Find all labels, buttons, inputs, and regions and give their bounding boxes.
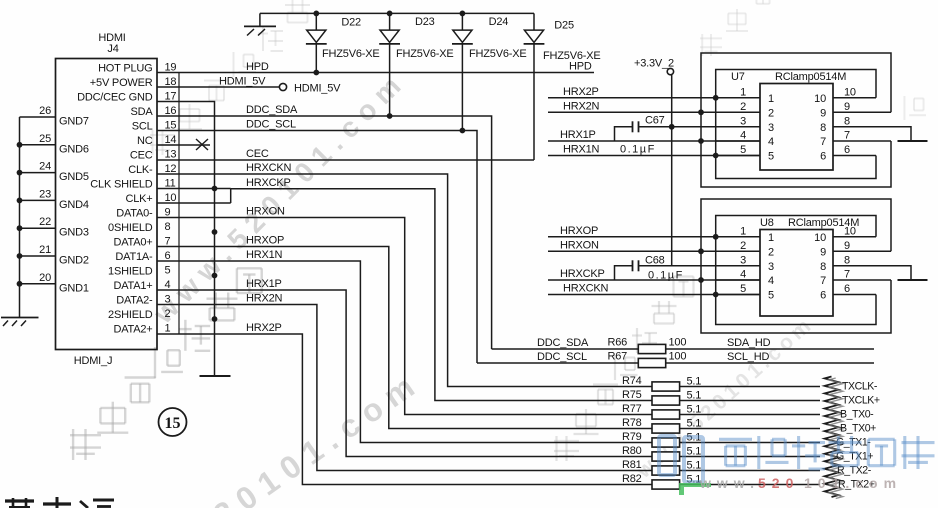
svg-text:CLK SHIELD: CLK SHIELD	[90, 178, 152, 190]
ground (U8 pin 8)	[898, 279, 928, 281]
node B_TX0+ terminal label	[840, 423, 876, 435]
wire HRXOP net to U8 pin1	[548, 225, 760, 237]
node G_TX1- terminal label	[836, 437, 871, 449]
wire HRXCKP net to U8 pin4	[548, 268, 760, 280]
svg-text:19: 19	[165, 61, 177, 73]
svg-text:16: 16	[165, 105, 177, 117]
svg-text:10: 10	[814, 93, 826, 105]
wire C67 to U7 pin3	[639, 126, 761, 128]
wire DDC_SCL net	[157, 119, 477, 364]
svg-text:R75: R75	[622, 389, 642, 401]
ground (DDC/CEC GND)	[200, 375, 231, 377]
svg-text:7: 7	[165, 235, 171, 247]
wire HRXCKP from HDMI pin10 to R75	[157, 177, 652, 401]
node U8 pin4 junction	[698, 277, 704, 283]
wire HRXON from HDMI to R-network	[157, 206, 652, 415]
wire U7 pin 6 stub	[820, 144, 876, 163]
svg-text:D22: D22	[341, 16, 361, 28]
wire HRXON net to U8 pin2	[548, 240, 760, 252]
resistor R79 5.1	[622, 431, 820, 447]
svg-text:R81: R81	[622, 459, 642, 471]
svg-text:2SHIELD: 2SHIELD	[108, 309, 153, 321]
svg-text:+3.3V_2: +3.3V_2	[634, 58, 674, 70]
svg-text:100: 100	[669, 351, 687, 363]
svg-text:HDMI_5V: HDMI_5V	[294, 83, 341, 95]
wire HRX1P from HDMI to R-network	[157, 278, 652, 456]
svg-text:CEC: CEC	[246, 148, 269, 160]
wire U7 pin 5 stub	[716, 144, 774, 163]
pin 20 GND1	[20, 272, 89, 295]
svg-text:GND3: GND3	[59, 227, 89, 239]
svg-text:C68: C68	[645, 255, 665, 267]
svg-text:HRX1N: HRX1N	[246, 249, 283, 261]
wire D25 to CEC	[533, 44, 535, 160]
ground (U7 pin 8)	[898, 140, 928, 142]
svg-text:5.1: 5.1	[687, 418, 702, 430]
node R_TX2- terminal label	[837, 465, 872, 477]
wire C68 to U8 pin3	[639, 265, 761, 267]
pin 15 SCL	[132, 119, 177, 132]
node U8 pin1 junction	[713, 234, 719, 240]
resistor R78 5.1	[622, 417, 820, 433]
svg-text:20: 20	[39, 272, 51, 284]
wire DDC_SDA net	[157, 104, 492, 349]
svg-text:HDMI_J: HDMI_J	[74, 355, 113, 367]
svg-text:24: 24	[39, 161, 51, 173]
pin 25 GND6	[20, 133, 89, 156]
wire U7 pin 1 stub	[716, 86, 774, 105]
svg-text:HRXCKP: HRXCKP	[560, 268, 605, 280]
wire U7 pin 9 stub	[820, 101, 891, 120]
node DDC_SDA-D23 junction	[387, 113, 393, 119]
resistor R66 100	[492, 337, 874, 354]
wire SDA_HD label	[537, 337, 771, 349]
svg-text:3: 3	[768, 261, 774, 273]
svg-text:7: 7	[844, 269, 850, 281]
pin 11 CLK SHIELD	[90, 177, 175, 190]
wire U7 pin 4 stub	[716, 130, 774, 149]
svg-text:HPD: HPD	[246, 61, 269, 73]
svg-text:FHZ5V6-XE: FHZ5V6-XE	[396, 48, 454, 60]
svg-text:3: 3	[740, 115, 746, 127]
svg-text:GND5: GND5	[59, 171, 89, 183]
svg-text:DDC/CEC GND: DDC/CEC GND	[77, 91, 153, 103]
svg-text:3: 3	[165, 293, 171, 305]
wire U8 pin 9 stub	[820, 240, 891, 258]
resistor R80 5.1	[622, 445, 820, 461]
svg-text:4: 4	[740, 130, 746, 142]
svg-text:DATA1+: DATA1+	[113, 280, 152, 292]
svg-text:4: 4	[740, 269, 746, 281]
svg-text:5: 5	[768, 290, 774, 302]
svg-text:www.: www.	[699, 475, 760, 491]
pin 7 DATA0+	[113, 235, 170, 248]
svg-text:+5V POWER: +5V POWER	[90, 77, 153, 89]
wire HDMI_5V net	[157, 75, 280, 87]
svg-text:2: 2	[165, 308, 171, 320]
svg-text:J4: J4	[107, 43, 118, 55]
connector J4 HDMI	[56, 32, 158, 367]
wire U8 pin 1 stub	[716, 225, 774, 244]
pin 26 GND7	[20, 105, 89, 128]
diode D22 FHZ5V6-XE	[306, 13, 380, 60]
svg-text:26: 26	[39, 105, 51, 117]
svg-text:0.1µF: 0.1µF	[648, 270, 684, 282]
node TXCLK- terminal label	[842, 381, 878, 393]
svg-text:SCL_HD: SCL_HD	[727, 351, 769, 363]
node rail junction D24	[460, 11, 466, 17]
node U7 pin2 junction	[698, 109, 704, 115]
svg-text:520: 520	[758, 475, 799, 491]
wire CEC net	[157, 148, 534, 160]
wire D23 to DDC_SDA	[389, 44, 391, 116]
svg-text:DDC_SDA: DDC_SDA	[246, 104, 298, 116]
svg-text:9: 9	[820, 246, 826, 258]
svg-text:7: 7	[844, 130, 850, 142]
wire HRX2P from HDMI to R-network	[157, 322, 652, 484]
svg-text:23: 23	[39, 188, 51, 200]
svg-text:8: 8	[844, 115, 850, 127]
resistor R74 5.1	[622, 375, 820, 391]
svg-text:5.1: 5.1	[687, 404, 702, 416]
diode D25 FHZ5V6-XE	[524, 13, 601, 62]
svg-text:100: 100	[669, 337, 687, 349]
svg-text:DATA0-: DATA0-	[116, 207, 153, 219]
svg-text:4: 4	[165, 279, 171, 291]
node TXCLK+ terminal label	[842, 395, 880, 407]
svg-text:NC: NC	[137, 135, 153, 147]
node sheet number 15	[159, 408, 187, 436]
resistor R75 5.1	[622, 389, 820, 405]
svg-text:HRX2N: HRX2N	[563, 101, 600, 113]
pin 17 DDC/CEC GND	[77, 90, 176, 103]
svg-text:R66: R66	[608, 337, 628, 349]
svg-text:5.1: 5.1	[687, 390, 702, 402]
diode D23 FHZ5V6-XE	[379, 13, 453, 60]
svg-text:7: 7	[820, 275, 826, 287]
svg-text:HRX2P: HRX2P	[563, 86, 599, 98]
wire U7 pin 10 stub	[814, 86, 876, 105]
svg-text:9: 9	[844, 240, 850, 252]
node rail junction D22	[313, 11, 319, 17]
wire diode rail	[260, 13, 534, 26]
svg-text:10: 10	[844, 86, 856, 98]
svg-text:15: 15	[165, 415, 181, 432]
svg-text:SDA: SDA	[130, 106, 153, 118]
svg-text:SDA_HD: SDA_HD	[727, 337, 771, 349]
pin 6 DAT1A-	[115, 250, 170, 263]
svg-text:DDC_SCL: DDC_SCL	[246, 119, 296, 131]
svg-text:2: 2	[740, 240, 746, 252]
GND bus wire left	[17, 117, 23, 318]
svg-text:DATA0+: DATA0+	[113, 236, 152, 248]
svg-text:D23: D23	[415, 16, 435, 28]
svg-text:TXCLK-: TXCLK-	[842, 381, 878, 393]
svg-text:8: 8	[165, 221, 171, 233]
svg-text:HRX1P: HRX1P	[560, 129, 596, 141]
svg-text:21: 21	[39, 244, 51, 256]
wire C67 jog to HRX1P	[615, 127, 633, 141]
svg-text:HOT PLUG: HOT PLUG	[98, 62, 152, 74]
svg-text:R77: R77	[622, 403, 642, 415]
svg-text:HPD: HPD	[569, 61, 592, 73]
capacitor C67 0.1uF	[620, 114, 665, 155]
svg-text:HRXON: HRXON	[246, 206, 285, 218]
svg-text:2: 2	[768, 246, 774, 258]
wire U7 label-box loop	[716, 70, 876, 179]
svg-text:GND6: GND6	[59, 143, 89, 155]
node U7 pin5 junction	[713, 153, 719, 159]
pin 2 2SHIELD	[108, 308, 170, 321]
svg-text:7: 7	[820, 136, 826, 148]
wire HRXCKN net to U8 pin5	[548, 283, 760, 295]
svg-text:5.1: 5.1	[687, 460, 702, 472]
node TX off-page zigzag terminal strip	[825, 377, 843, 499]
wire U8 pin 5 stub	[716, 283, 774, 302]
wire HRX1N net to U7 pin5	[548, 144, 760, 156]
svg-text:1: 1	[768, 232, 774, 244]
wire HRX1P net to U7 pin4	[548, 129, 760, 141]
svg-text:B_TX0+: B_TX0+	[840, 423, 876, 435]
wire U8 pin 8 stub	[820, 254, 911, 280]
node U7 pin1 junction	[713, 95, 719, 101]
pin 12 CLK-	[128, 163, 176, 176]
op-amp U7 RClamp0514M body	[731, 71, 846, 170]
svg-text:18: 18	[165, 76, 177, 88]
node U8 pin5 junction	[713, 292, 719, 298]
pin 18 +5V POWER	[90, 76, 177, 89]
svg-text:0.1µF: 0.1µF	[620, 144, 656, 156]
svg-text:101.com: 101.com	[804, 475, 902, 491]
svg-text:9: 9	[844, 101, 850, 113]
svg-text:RClamp0514M: RClamp0514M	[775, 71, 846, 83]
svg-text:HRXON: HRXON	[560, 240, 599, 252]
svg-text:1: 1	[165, 322, 171, 334]
pin 3 DATA2-	[116, 293, 170, 306]
wire U7 pin 2 stub	[716, 101, 774, 120]
svg-text:DDC_SDA: DDC_SDA	[537, 337, 589, 349]
pin 8 0SHIELD	[108, 221, 170, 234]
svg-text:12: 12	[165, 163, 177, 175]
svg-text:R74: R74	[622, 375, 642, 387]
wire HRXOP from HDMI to R-network	[157, 235, 652, 429]
pin 21 GND2	[20, 244, 89, 267]
svg-text:5: 5	[740, 144, 746, 156]
svg-text:4: 4	[768, 136, 774, 148]
svg-text:10: 10	[844, 225, 856, 237]
pin 4 DATA1+	[113, 279, 170, 292]
node U7 pin4 junction	[698, 138, 704, 144]
svg-text:HRXCKN: HRXCKN	[246, 162, 292, 174]
svg-text:6: 6	[820, 290, 826, 302]
wire HRX2N from HDMI to R-network	[157, 293, 652, 471]
node +3.3V_2 supply terminal	[634, 58, 674, 75]
node R_TX2+ terminal label	[838, 479, 875, 491]
svg-text:GND7: GND7	[59, 116, 89, 128]
svg-text:GND1: GND1	[59, 282, 89, 294]
svg-text:HRXOP: HRXOP	[246, 235, 284, 247]
svg-text:R78: R78	[622, 417, 642, 429]
svg-text:1: 1	[740, 86, 746, 98]
svg-text:13: 13	[165, 148, 177, 160]
svg-text:1SHIELD: 1SHIELD	[108, 265, 153, 277]
svg-text:HDMI_5V: HDMI_5V	[219, 75, 266, 87]
svg-text:C67: C67	[645, 114, 665, 126]
svg-text:HRXOP: HRXOP	[560, 225, 598, 237]
pin 9 DATA0-	[116, 206, 170, 219]
svg-text:2: 2	[740, 101, 746, 113]
wire HPD net	[157, 61, 594, 74]
svg-text:0SHIELD: 0SHIELD	[108, 222, 153, 234]
wire U8 pin 4 stub	[716, 269, 774, 288]
svg-text:D24: D24	[489, 16, 509, 28]
svg-text:HRX1P: HRX1P	[246, 278, 282, 290]
wire +3.3V_2 vertical	[671, 75, 673, 266]
wire SCL_HD label	[537, 351, 769, 363]
wire U7 outer loop	[701, 53, 891, 187]
svg-text:2: 2	[768, 107, 774, 119]
pin 13 CEC	[130, 148, 177, 161]
svg-text:TXCLK+: TXCLK+	[842, 395, 880, 407]
svg-text:GND2: GND2	[59, 255, 89, 267]
svg-text:15: 15	[165, 119, 177, 131]
wire DDC/CEC GND bus	[157, 102, 217, 377]
svg-text:3: 3	[768, 122, 774, 134]
node rail junction D23	[387, 11, 393, 17]
svg-text:DATA2+: DATA2+	[113, 323, 152, 335]
svg-text:R82: R82	[622, 473, 642, 485]
wire U8 pin 6 stub	[820, 283, 876, 302]
svg-text:6: 6	[820, 151, 826, 163]
svg-text:R80: R80	[622, 445, 642, 457]
wire U7 pin 7 stub	[820, 130, 891, 149]
wire U8 label-box loop	[716, 216, 876, 325]
wire U8 pin 2 stub	[716, 240, 774, 258]
wire pin14 NC stub	[157, 144, 210, 146]
svg-text:14: 14	[165, 134, 177, 146]
svg-text:5.1: 5.1	[687, 446, 702, 458]
pin 23 GND4	[20, 188, 89, 211]
wire U7 pin 3 stub	[716, 115, 774, 134]
capacitor C68 0.1uF	[633, 255, 684, 282]
resistor R77 5.1	[622, 403, 820, 419]
wire U7 pin 8 stub	[820, 115, 911, 141]
svg-text:6: 6	[844, 144, 850, 156]
node U8 pin2 junction	[698, 248, 704, 254]
resistor R82 5.1	[622, 473, 820, 489]
wire HRX2N net to U7 pin2	[548, 101, 760, 113]
svg-text:U7: U7	[731, 71, 745, 83]
svg-text:8: 8	[844, 254, 850, 266]
wire HRXCKN from HDMI to R-network	[157, 162, 652, 386]
op-amp U8 RClamp0514M body	[760, 217, 859, 316]
pin 10 CLK+	[125, 192, 176, 205]
svg-text:DATA2-: DATA2-	[116, 294, 153, 306]
svg-text:SCL: SCL	[132, 120, 153, 132]
svg-text:5: 5	[768, 151, 774, 163]
node HDMI_5V open terminal	[279, 83, 341, 95]
svg-text:B_TX0-: B_TX0-	[840, 409, 874, 421]
svg-text:5: 5	[740, 283, 746, 295]
svg-text:10: 10	[165, 192, 177, 204]
svg-text:6: 6	[844, 283, 850, 295]
svg-text:CLK+: CLK+	[125, 193, 152, 205]
no-connect X pin 14	[196, 139, 208, 150]
svg-text:CEC: CEC	[130, 149, 153, 161]
svg-text:DAT1A-: DAT1A-	[115, 251, 153, 263]
svg-text:HRX2P: HRX2P	[246, 322, 282, 334]
resistor R67 100	[477, 351, 874, 368]
svg-text:17: 17	[165, 90, 177, 102]
chassis ground (diode rail)	[244, 26, 276, 35]
svg-text:4: 4	[768, 275, 774, 287]
svg-text:25: 25	[39, 133, 51, 145]
svg-text:8: 8	[820, 122, 826, 134]
pin 5 1SHIELD	[108, 264, 170, 277]
svg-text:5: 5	[165, 264, 171, 276]
node HPD-D22 junction	[313, 70, 319, 76]
node +3.3V to U7 pin3 junction	[669, 124, 675, 130]
node DDC_SCL-D24 junction	[460, 128, 466, 134]
svg-text:6: 6	[165, 250, 171, 262]
svg-text:GND4: GND4	[59, 199, 89, 211]
wire HRX2P net to U7 pin1	[548, 86, 760, 98]
diode D24 FHZ5V6-XE	[452, 13, 527, 60]
wire D24 to DDC_SCL	[461, 44, 463, 131]
svg-text:DDC_SCL: DDC_SCL	[537, 351, 587, 363]
svg-text:HRXCKP: HRXCKP	[246, 177, 291, 189]
resistor R81 5.1	[622, 459, 820, 475]
svg-text:D25: D25	[554, 20, 574, 32]
wire C68 jog to HRXCKP	[615, 266, 633, 280]
svg-text:3: 3	[740, 254, 746, 266]
pin 1 DATA2+	[113, 322, 170, 335]
svg-text:9: 9	[165, 206, 171, 218]
wire U8 outer loop	[701, 199, 891, 333]
pin 19 HOT PLUG	[98, 61, 176, 74]
svg-text:HRX1N: HRX1N	[563, 144, 600, 156]
svg-text:11: 11	[165, 177, 176, 189]
node G_TX1+ terminal label	[836, 451, 873, 463]
svg-text:CLK-: CLK-	[128, 164, 153, 176]
wire U8 pin 3 stub	[716, 254, 774, 273]
node B_TX0- terminal label	[840, 409, 874, 421]
svg-text:1: 1	[768, 93, 774, 105]
pin number column tick line	[178, 73, 180, 334]
svg-text:5.1: 5.1	[687, 376, 702, 388]
wire U8 pin 10 stub	[814, 225, 876, 244]
svg-text:HRX2N: HRX2N	[246, 293, 283, 305]
svg-text:R67: R67	[608, 351, 628, 363]
svg-text:22: 22	[39, 216, 51, 228]
svg-text:FHZ5V6-XE: FHZ5V6-XE	[469, 48, 527, 60]
wire U8 pin 7 stub	[820, 269, 891, 288]
svg-text:8: 8	[820, 261, 826, 273]
pin 24 GND5	[20, 161, 89, 184]
svg-text:U8: U8	[760, 217, 774, 229]
pin 16 SDA	[130, 105, 176, 118]
pin 14 NC	[137, 134, 176, 147]
pin 22 GND3	[20, 216, 89, 239]
svg-text:FHZ5V6-XE: FHZ5V6-XE	[322, 48, 380, 60]
svg-text:10: 10	[814, 232, 826, 244]
ground (connector shell)	[1, 318, 39, 327]
wire D22 to HPD	[315, 44, 317, 73]
wire HRX1N from HDMI to R-network	[157, 249, 652, 442]
svg-text:9: 9	[820, 107, 826, 119]
svg-text:1: 1	[740, 225, 746, 237]
svg-text:HRXCKN: HRXCKN	[563, 283, 609, 295]
